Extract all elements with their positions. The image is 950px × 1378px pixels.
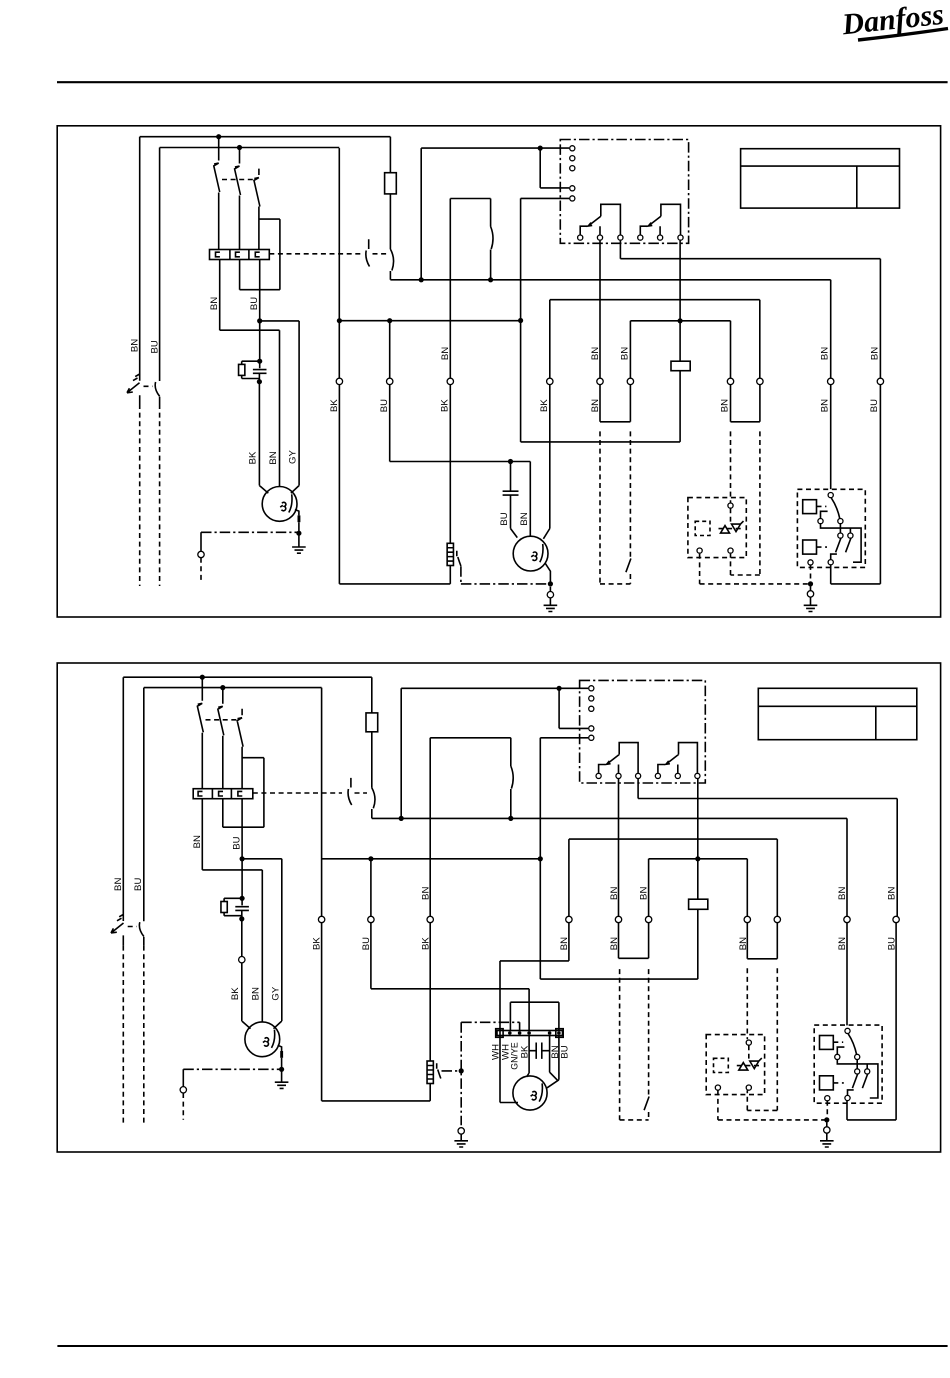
svg-text:BK: BK — [539, 399, 550, 412]
svg-text:BN: BN — [837, 937, 848, 950]
svg-text:BU: BU — [379, 399, 390, 412]
svg-text:BN: BN — [837, 887, 848, 900]
svg-text:BN: BN — [609, 887, 620, 900]
svg-text:BK: BK — [520, 1045, 531, 1058]
svg-text:BK: BK — [440, 399, 451, 412]
svg-text:BK: BK — [248, 451, 259, 464]
svg-text:BN: BN — [869, 347, 880, 360]
svg-text:BU: BU — [887, 937, 898, 950]
svg-text:BN: BN — [559, 937, 570, 950]
svg-text:BN: BN — [886, 887, 897, 900]
svg-text:BN: BN — [209, 297, 220, 310]
svg-text:BN: BN — [192, 835, 203, 848]
svg-text:BN: BN — [113, 878, 124, 891]
svg-text:BU: BU — [232, 836, 243, 849]
svg-text:BN: BN — [590, 399, 601, 412]
svg-text:BU: BU — [499, 512, 510, 525]
svg-text:BN: BN — [738, 937, 749, 950]
svg-text:BU: BU — [133, 878, 144, 891]
svg-text:BN: BN — [268, 451, 279, 464]
svg-text:BN: BN — [819, 347, 830, 360]
svg-text:BK: BK — [230, 987, 241, 1000]
svg-text:GN/YE: GN/YE — [509, 1042, 519, 1070]
svg-text:BN: BN — [720, 399, 731, 412]
svg-text:BU: BU — [149, 340, 160, 353]
svg-text:BN: BN — [420, 887, 431, 900]
svg-text:BK: BK — [329, 399, 340, 412]
svg-text:GY: GY — [288, 449, 299, 463]
svg-text:BU: BU — [249, 297, 260, 310]
svg-text:BN: BN — [129, 339, 140, 352]
svg-text:BN: BN — [519, 512, 530, 525]
svg-text:BN: BN — [251, 987, 262, 1000]
svg-text:BN: BN — [620, 347, 631, 360]
svg-text:BU: BU — [869, 399, 880, 412]
svg-text:BN: BN — [639, 887, 650, 900]
svg-text:BK: BK — [312, 937, 323, 950]
svg-text:GY: GY — [270, 986, 281, 1000]
svg-text:BN: BN — [819, 399, 830, 412]
svg-text:BN: BN — [440, 347, 451, 360]
svg-text:BU: BU — [361, 937, 372, 950]
svg-text:BN: BN — [609, 937, 620, 950]
svg-text:BN: BN — [590, 347, 601, 360]
svg-text:BU: BU — [559, 1045, 570, 1058]
svg-text:BK: BK — [420, 937, 431, 950]
